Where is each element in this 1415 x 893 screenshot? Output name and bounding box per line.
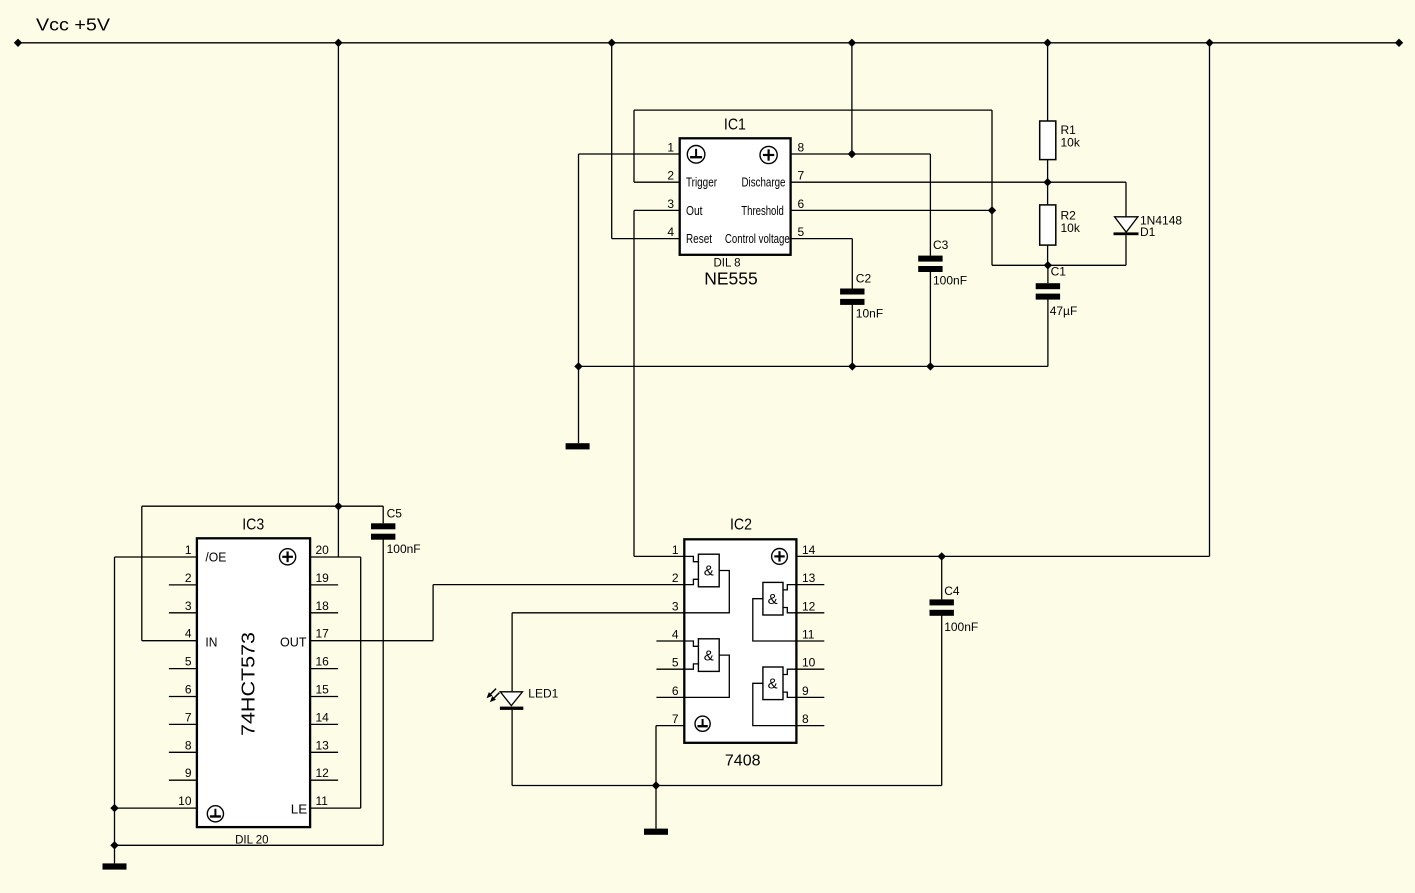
svg-text:4: 4 [185, 627, 192, 641]
svg-text:C3: C3 [933, 238, 949, 252]
svg-text:6: 6 [672, 684, 679, 698]
svg-text:8: 8 [185, 738, 192, 752]
svg-text:10k: 10k [1061, 136, 1081, 150]
svg-text:C4: C4 [944, 584, 960, 598]
svg-text:15: 15 [316, 683, 330, 697]
svg-text:19: 19 [316, 571, 330, 585]
svg-text:9: 9 [185, 766, 192, 780]
svg-text:/OE: /OE [205, 551, 226, 565]
svg-text:OUT: OUT [280, 636, 307, 650]
svg-text:IC3: IC3 [242, 517, 264, 534]
svg-text:6: 6 [798, 197, 805, 211]
svg-text:18: 18 [316, 599, 330, 613]
svg-text:9: 9 [802, 684, 809, 698]
svg-text:C2: C2 [856, 272, 872, 286]
svg-text:1: 1 [667, 141, 674, 155]
svg-text:14: 14 [802, 543, 816, 557]
svg-text:DIL 20: DIL 20 [235, 835, 268, 847]
svg-text:13: 13 [802, 571, 816, 585]
svg-text:Reset: Reset [686, 232, 712, 246]
svg-text:100nF: 100nF [387, 542, 421, 556]
svg-text:8: 8 [802, 712, 809, 726]
svg-text:8: 8 [798, 141, 805, 155]
svg-text:6: 6 [185, 683, 192, 697]
svg-text:3: 3 [185, 599, 192, 613]
svg-text:14: 14 [316, 710, 330, 724]
svg-text:3: 3 [667, 197, 674, 211]
svg-text:10nF: 10nF [856, 306, 883, 320]
svg-text:100nF: 100nF [933, 274, 967, 288]
svg-text:74HCT573: 74HCT573 [238, 632, 259, 736]
svg-text:11: 11 [802, 628, 815, 642]
svg-text:5: 5 [185, 655, 192, 669]
svg-text:7408: 7408 [725, 753, 761, 770]
svg-text:Control voltage: Control voltage [725, 232, 790, 246]
svg-text:4: 4 [667, 225, 674, 239]
svg-text:17: 17 [316, 627, 330, 641]
svg-text:2: 2 [185, 571, 192, 585]
svg-text:100nF: 100nF [944, 620, 978, 634]
svg-text:Trigger: Trigger [686, 176, 717, 190]
svg-text:Vcc +5V: Vcc +5V [36, 15, 110, 35]
svg-text:13: 13 [316, 738, 330, 752]
svg-text:IN: IN [205, 636, 217, 650]
svg-text:12: 12 [316, 766, 330, 780]
svg-text:20: 20 [316, 543, 330, 557]
svg-text:7: 7 [185, 710, 192, 724]
svg-text:12: 12 [802, 599, 816, 613]
svg-text:IC2: IC2 [730, 517, 752, 534]
svg-text:10: 10 [178, 794, 192, 808]
svg-text:C5: C5 [387, 507, 403, 521]
svg-text:4: 4 [672, 628, 679, 642]
svg-text:&: & [704, 563, 714, 580]
svg-text:7: 7 [672, 712, 679, 726]
svg-text:Threshold: Threshold [741, 204, 784, 218]
svg-text:10: 10 [802, 656, 816, 670]
svg-text:11: 11 [316, 794, 329, 808]
svg-text:16: 16 [316, 655, 330, 669]
svg-text:7: 7 [798, 169, 805, 183]
svg-text:&: & [768, 591, 778, 608]
svg-text:D1: D1 [1140, 225, 1156, 239]
svg-text:LED1: LED1 [528, 686, 558, 700]
svg-text:47µF: 47µF [1050, 304, 1078, 318]
svg-text:IC1: IC1 [724, 117, 746, 134]
svg-text:2: 2 [672, 571, 679, 585]
svg-text:NE555: NE555 [704, 269, 758, 289]
svg-text:LE: LE [291, 803, 308, 817]
svg-text:3: 3 [672, 599, 679, 613]
svg-text:10k: 10k [1061, 221, 1081, 235]
svg-text:1: 1 [185, 543, 192, 557]
svg-text:2: 2 [667, 169, 674, 183]
svg-text:5: 5 [672, 656, 679, 670]
svg-text:1: 1 [672, 543, 679, 557]
svg-text:&: & [768, 676, 778, 693]
svg-text:C1: C1 [1051, 264, 1067, 278]
svg-text:5: 5 [798, 225, 805, 239]
svg-text:Discharge: Discharge [742, 176, 786, 190]
svg-text:&: & [704, 647, 714, 664]
svg-text:Out: Out [686, 204, 703, 218]
